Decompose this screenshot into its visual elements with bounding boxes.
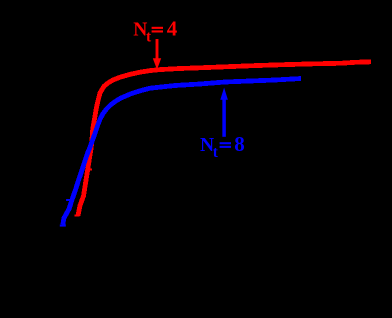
red arrow xyxy=(156,39,159,59)
blue curve Nt=8 xyxy=(63,79,301,225)
red error cap xyxy=(75,215,80,217)
red tick xyxy=(86,169,93,171)
red equals sign xyxy=(152,27,163,29)
blue arrow xyxy=(222,99,226,137)
red curve Nt=4 xyxy=(78,62,371,216)
blue error cap bottom xyxy=(60,224,66,226)
blue equals sign xyxy=(220,142,231,144)
blue tick at y=200 xyxy=(66,199,73,201)
